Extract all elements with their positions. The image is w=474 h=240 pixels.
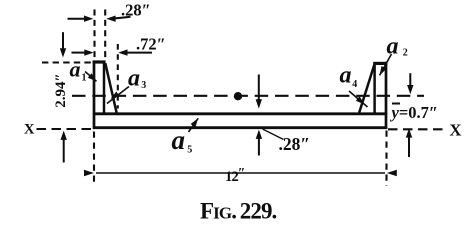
X axis line right (388, 128, 448, 130)
right flange top cap (373, 62, 387, 65)
arrowhead 2.94 down (60, 48, 66, 57)
extension dashed line A (left flange outer face, above) (93, 10, 95, 59)
dimension .28in top left arrow (68, 18, 86, 20)
svg-text:a: a (70, 57, 81, 82)
arrowhead leader a1 (88, 73, 97, 81)
arrowhead leader a3 (111, 92, 120, 99)
arrowhead leader a2 (380, 66, 387, 75)
arrowhead 12in right (387, 170, 397, 176)
svg-text:.28″: .28″ (121, 1, 151, 20)
ybar up arrow stem (408, 137, 410, 158)
arrowhead .72 left (84, 49, 93, 55)
dashed reference line at flange top (2.94in datum) (42, 61, 92, 63)
left flange inner line (103, 61, 106, 114)
svg-text:5: 5 (187, 144, 192, 155)
leader a2 (380, 54, 392, 75)
svg-text:1: 1 (82, 73, 87, 84)
leader .28in plate label (263, 129, 284, 140)
plate a5 bottom edge (93, 126, 387, 129)
leader a4 (349, 91, 368, 107)
arrowhead 2.94 up (61, 131, 67, 140)
dimension 12in line (96, 172, 385, 174)
svg-text:2.94″: 2.94″ (53, 73, 69, 108)
extension dashed line B (left flange inner face, above) (104, 10, 106, 60)
X axis line left (37, 128, 94, 130)
svg-text:FIG. 229.: FIG. 229. (200, 199, 277, 224)
svg-text:.72″: .72″ (136, 35, 166, 54)
extension dashed line below right (for 12in) (385, 131, 387, 187)
right flange outer line (385, 62, 388, 129)
svg-text:a: a (387, 34, 399, 60)
dimension .72in left arrow (72, 52, 87, 54)
dimension .72in right arrow (126, 52, 152, 54)
arrowhead plate up (256, 130, 262, 139)
dimension .28in top right arrow (114, 17, 131, 19)
svg-text:y=0.7″: y=0.7″ (390, 103, 438, 122)
plate thickness down arrow stem (258, 75, 260, 102)
left flange outer line (93, 61, 96, 130)
arrowhead .28 top right (106, 16, 115, 22)
svg-text:2: 2 (403, 47, 408, 58)
leader a5 (189, 118, 199, 132)
svg-text:a: a (340, 62, 352, 88)
leader a3 (107, 87, 129, 104)
centroid axis dashed line (72, 95, 424, 97)
svg-text:X: X (450, 120, 462, 139)
right fillet diagonal a4 (359, 65, 374, 113)
extension dashed line below left (for 12in) (93, 132, 95, 187)
left flange top cap (93, 60, 106, 63)
arrowhead plate down (256, 99, 262, 108)
left fillet diagonal a3 (105, 63, 116, 112)
svg-text:4: 4 (352, 79, 357, 90)
svg-text:X: X (24, 121, 35, 137)
arrowhead .72 right (118, 49, 127, 55)
arrowhead ybar down (407, 85, 413, 94)
right flange inner line (373, 63, 376, 114)
extension dashed line C (fillet toe) (117, 44, 119, 109)
leader a1 (85, 72, 97, 82)
arrowhead .28 top left (84, 16, 93, 22)
arrowhead leader a5 (191, 118, 199, 127)
arrowhead 12in left (84, 170, 94, 176)
dimension 2.94in down arrow stem (62, 32, 64, 50)
centroid dot (234, 92, 242, 100)
plate a5 top edge (93, 112, 387, 115)
svg-text:a: a (172, 125, 186, 155)
ybar down arrow stem (409, 73, 411, 87)
svg-text:.28″: .28″ (279, 134, 311, 154)
plate thickness up arrow stem (258, 137, 260, 156)
arrowhead leader a4 (356, 96, 365, 104)
arrowhead ybar up (406, 128, 412, 137)
svg-text:3: 3 (141, 80, 146, 91)
dimension 2.94in up arrow stem (63, 138, 65, 163)
svg-text:a: a (128, 66, 140, 92)
